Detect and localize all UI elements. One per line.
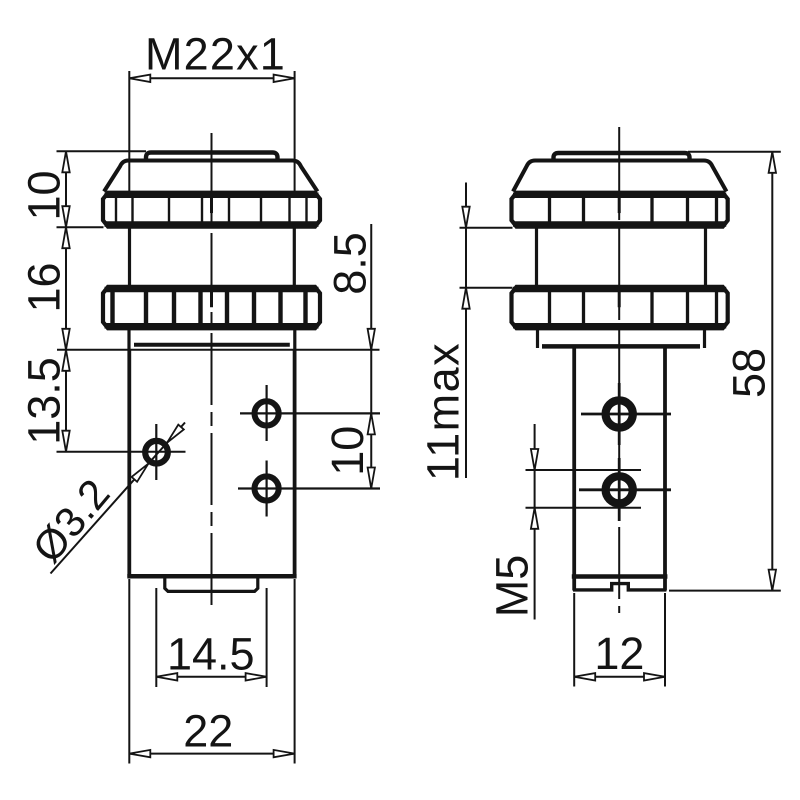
right view: hole B crosshair xyxy=(579,488,671,491)
right view: hole A crosshair xyxy=(581,413,671,416)
left view: threaded body M22 xyxy=(127,350,131,577)
dimension M5: dimension line xyxy=(534,424,536,620)
dimension 14.5: extension lines xyxy=(155,588,157,687)
right view: hole A (M5 port) xyxy=(606,400,633,427)
svg-text:10: 10 xyxy=(19,170,70,220)
dimension 12: extension lines xyxy=(573,593,575,687)
right view: neck between rings xyxy=(535,226,538,289)
right view: push button plunger top xyxy=(554,153,690,161)
svg-text:14.5: 14.5 xyxy=(167,629,255,680)
right view: body (12 wide) xyxy=(572,347,576,591)
left view: cap (trapezoid bonnet) xyxy=(104,161,318,192)
dimension 11max: extension lines xyxy=(460,227,513,229)
svg-text:M5: M5 xyxy=(486,555,537,618)
dimension 22: dimension line xyxy=(129,753,294,755)
left view: outlet hole 2 crosshair xyxy=(238,487,380,489)
left dimension column: extension lines xyxy=(57,150,147,152)
svg-text:13.5: 13.5 xyxy=(19,357,70,445)
svg-text:10: 10 xyxy=(322,426,373,476)
dimension 11max: dimension line xyxy=(465,183,467,479)
dimension 10 (cap height): arrows xyxy=(62,151,69,172)
left view: side hole (3.2 dia) xyxy=(145,441,168,464)
left view: body top edge line xyxy=(57,349,380,351)
svg-text:58: 58 xyxy=(723,348,774,398)
left view: side hole crosshair horizontal xyxy=(57,451,186,453)
right view: knurled ring 1 xyxy=(512,193,728,227)
right view: centre line xyxy=(618,127,620,613)
right view: knurled ring 2 xyxy=(512,287,728,328)
right view: hole B (M5 port) xyxy=(606,476,633,503)
dimension M22x1: dimension line xyxy=(129,77,294,79)
right view: bottom edge with slot notch xyxy=(573,584,666,590)
dimension M5: extension lines xyxy=(526,469,642,471)
left view: outlet hole 1 crosshair xyxy=(240,412,380,414)
dimension 8.5: arrow xyxy=(368,329,375,350)
left view: neck between rings xyxy=(128,226,131,289)
left view: outlet hole 2 xyxy=(255,476,279,500)
dimension M22x1: extension lines xyxy=(128,71,130,192)
right view: collar below ring 2 xyxy=(536,328,539,349)
dimension 58: dimension line xyxy=(771,152,773,591)
dimension 8.5 / 10 column: dimension line xyxy=(370,224,372,489)
left view: centre line xyxy=(211,133,213,610)
dimension 10 (hole spacing): arrows xyxy=(368,413,375,434)
svg-text:22: 22 xyxy=(183,706,233,757)
dimension 14.5: dimension line xyxy=(156,676,266,678)
dimension 22: extension lines xyxy=(128,579,130,764)
svg-text:M22x1: M22x1 xyxy=(145,29,286,80)
dimension 16: arrows xyxy=(62,227,69,248)
svg-text:11max: 11max xyxy=(417,342,468,481)
left dimension column: dimension line xyxy=(65,151,67,451)
right view: cap (trapezoid bonnet) xyxy=(513,161,727,192)
left view: collar below ring 2 xyxy=(127,328,130,350)
left view: push button plunger top xyxy=(146,153,278,162)
leader line for 3.2 dia hole xyxy=(51,423,186,574)
dimension 13.5: arrows xyxy=(62,350,69,371)
svg-text:8.5: 8.5 xyxy=(325,232,376,295)
left view: outlet hole 1 xyxy=(255,401,279,425)
left view: knurled ring 2 (lower locking ring) xyxy=(103,287,320,328)
left view: knurled ring 1 (upper locking ring) xyxy=(103,193,320,227)
left view: bottom stub xyxy=(165,578,258,591)
svg-text:12: 12 xyxy=(594,628,644,679)
dimension 12: dimension line xyxy=(574,676,665,678)
left view: side hole crosshair vertical xyxy=(155,424,157,480)
svg-text:16: 16 xyxy=(19,262,70,312)
dimension 58: extension lines xyxy=(688,151,781,153)
